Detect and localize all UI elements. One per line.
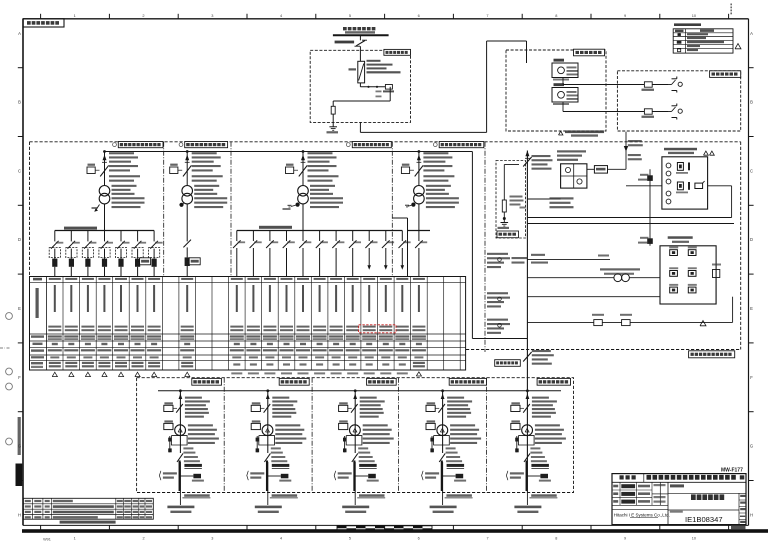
bottom feeder 5 transformer	[515, 424, 566, 452]
bottom panel divider 2	[311, 378, 313, 493]
breaker rating labels	[367, 60, 401, 74]
station transformer DS	[557, 150, 587, 188]
bottom panel divider 4	[486, 378, 488, 493]
emergency power panel dashed enclosure	[617, 71, 740, 131]
feeder S3 disconnect	[286, 150, 339, 186]
bottom panel name box 4	[449, 378, 486, 385]
feeder labels left group2	[487, 292, 510, 307]
labels below DS	[520, 197, 574, 208]
type row label	[670, 484, 684, 487]
relay contact 2	[668, 104, 682, 120]
feeder S1 disconnect	[87, 150, 140, 186]
panel divider S1-S2	[163, 142, 165, 277]
bottom feeder 2 ground transformer	[268, 474, 292, 482]
bottom feeder 4 ground transformer	[443, 474, 467, 482]
drawing title text	[691, 494, 724, 500]
bottom feeder 3 transformer	[343, 424, 394, 452]
bottom feeder 2 cable label	[268, 493, 298, 506]
emergency power equipment panel	[662, 148, 714, 209]
transformer T2	[179, 185, 227, 208]
LV bus S1	[55, 230, 154, 232]
bottom panel name box 1	[192, 378, 222, 385]
svg-text:7: 7	[486, 537, 488, 541]
svg-text:6: 6	[418, 537, 420, 541]
title block frame	[612, 474, 746, 525]
wire feed to bottom panels	[472, 152, 527, 339]
bottom feeder 5 ground transformer	[527, 474, 551, 482]
fuse F1	[383, 85, 394, 93]
svg-text:H: H	[18, 512, 21, 517]
revision footer label	[60, 521, 116, 524]
svg-text:8: 8	[555, 13, 557, 18]
wire	[626, 185, 662, 187]
transformer T3	[283, 185, 344, 210]
LV feeder breaker S3-5	[299, 231, 311, 277]
svg-text:E: E	[750, 306, 753, 311]
LV feeder breaker S3-11	[399, 231, 411, 270]
bottom feeder 5 destination label	[514, 506, 541, 513]
fuse DC circuit 2	[642, 109, 655, 118]
wire	[359, 46, 361, 61]
graphic scale bar	[337, 526, 432, 531]
LV feeder breaker S4-1	[415, 231, 427, 277]
svg-text:MW-F177: MW-F177	[721, 467, 743, 473]
LV bus S4	[408, 230, 431, 232]
LV feeder breaker S1-5	[115, 231, 129, 277]
bottom feeder 2 transformer	[256, 424, 307, 452]
wire	[360, 86, 390, 88]
svg-text:A: A	[18, 31, 21, 36]
bottom feeder 4 cable label	[443, 493, 473, 506]
svg-text:4: 4	[280, 537, 282, 541]
transformer T4	[405, 185, 459, 208]
svg-text:B: B	[18, 100, 21, 105]
LV feeder breaker S1-7	[149, 231, 163, 277]
LV bus S3	[237, 230, 402, 232]
instrument transformer pair	[527, 268, 660, 281]
ground B-5B	[498, 223, 510, 230]
svg-text:F: F	[750, 375, 753, 380]
panel divider S4-HV section	[484, 142, 486, 352]
bottom feeder 4 PU box 2	[426, 420, 435, 429]
LV feeder breaker S2-1	[183, 240, 200, 277]
feeder labels left group1	[487, 253, 510, 268]
HV main vertical wire	[526, 151, 528, 493]
wire	[389, 87, 391, 101]
wire	[359, 83, 361, 87]
spare power source label	[559, 130, 605, 136]
wire AC100V feed	[624, 132, 643, 170]
bottom feeder 4 transformer	[430, 424, 481, 452]
wire	[527, 198, 560, 200]
svg-text:5: 5	[349, 13, 351, 18]
svg-text:D: D	[750, 237, 753, 242]
bottom feeder 1 LBS	[177, 447, 200, 462]
fuse DC circuit 1	[642, 82, 655, 91]
metering panel name box	[384, 49, 411, 55]
bottom feeder 1 destination label	[167, 506, 194, 513]
svg-text:2: 2	[142, 537, 144, 541]
svg-text:C: C	[18, 168, 21, 173]
bus label S3 210-105V	[259, 226, 292, 229]
HV section bottom dashed edge	[466, 349, 741, 351]
location cross cell	[652, 482, 668, 505]
bottom feeder 4 LBS	[439, 447, 462, 462]
control power breaker	[587, 166, 626, 174]
bottom feeder 2 cable run	[247, 461, 268, 493]
labels near EF lower	[512, 257, 528, 264]
table circuit data cells	[48, 278, 426, 368]
bottom feeder 1 bold label	[184, 464, 202, 469]
emergency power panel name box	[710, 71, 741, 78]
svg-text:6: 6	[418, 13, 420, 18]
LV feeder breaker S3-3	[266, 231, 278, 277]
bottom feeder 2 disconnect	[251, 389, 297, 453]
svg-text:A: A	[750, 31, 753, 36]
incoming bus	[333, 34, 389, 36]
bottom panels dashed enclosure	[137, 378, 574, 493]
station service panel dashed enclosure	[506, 50, 606, 131]
grounding resistor	[502, 165, 523, 223]
bottom feeder 3 PU box 2	[339, 420, 348, 429]
LV feeder breaker S3-4	[283, 231, 295, 277]
emergency power central panel	[660, 236, 716, 304]
auxiliary box right	[712, 264, 721, 305]
bottom feeder 2 destination label	[255, 506, 282, 513]
bus label S1 400-220V	[64, 227, 97, 230]
surge resistor	[331, 101, 335, 127]
wire	[104, 204, 106, 231]
bottom feeder 3 disconnect	[339, 389, 385, 453]
HV primary panel name box	[689, 351, 735, 358]
wire	[333, 100, 390, 102]
battery charger unit 2	[552, 83, 578, 105]
svg-text:5: 5	[349, 537, 351, 541]
bottom feeder 1 transformer	[168, 424, 219, 452]
bottom feeder 3 cable label	[355, 493, 385, 506]
panel S1 name box 400V transformer panel	[113, 142, 163, 148]
bottom feeder 5 bold label	[531, 464, 549, 469]
grounding transformer dashed cubicle	[496, 161, 526, 239]
table below triangles	[52, 372, 421, 377]
svg-text:3: 3	[211, 13, 213, 18]
bottom panel divider 1	[223, 378, 225, 493]
panel row dashed enclosure	[30, 142, 741, 277]
relay contact 1	[668, 77, 682, 93]
HV section right dashed edge	[740, 142, 742, 350]
panel divider S2-S3	[230, 142, 232, 277]
svg-text:9: 9	[624, 13, 626, 18]
bottom panel name box 2	[279, 378, 309, 385]
wire	[418, 204, 420, 231]
LV feeder breaker S3-2	[250, 231, 262, 277]
node incoming utility source label	[343, 27, 375, 34]
bottom feeder 2 bold label	[272, 464, 290, 469]
transformer panel 2P name box	[495, 360, 521, 367]
revision rows in title block	[612, 482, 652, 505]
LV feeder breaker S3-1	[233, 231, 245, 277]
LV feeder breaker S1-3	[82, 231, 96, 277]
HV disconnect arrow	[525, 151, 530, 159]
bottom feeder 5 cable run	[506, 461, 526, 492]
bottom panel name box 5	[537, 378, 570, 385]
wire	[359, 122, 361, 132]
svg-text:W91: W91	[43, 538, 51, 542]
service point disconnect switch	[355, 40, 368, 46]
wire	[302, 204, 304, 231]
bottom feeder 1 ground transformer	[180, 474, 204, 482]
title block header row	[620, 474, 745, 483]
node junction	[367, 86, 369, 88]
bottom feeder 3 ground transformer	[355, 474, 379, 482]
registration dotted mark top right	[730, 4, 732, 15]
phase label	[376, 91, 382, 98]
bottom feeder 1 cable label	[180, 493, 210, 506]
svg-text:E: E	[18, 306, 21, 311]
service point label	[335, 41, 355, 44]
svg-text:8: 8	[555, 537, 557, 541]
wire	[708, 186, 732, 218]
feeder labels left group3	[487, 319, 510, 334]
svg-text:C: C	[750, 168, 753, 173]
bottom feeder 5 cable label	[527, 493, 557, 506]
svg-text:Hitachi I E Systems Co.,Ltd.: Hitachi I E Systems Co.,Ltd.	[614, 513, 670, 518]
bottom feeder 3 LBS	[352, 447, 375, 462]
battery charger unit 1	[552, 59, 578, 81]
wire feed to station service	[360, 41, 552, 132]
control wire mid	[527, 296, 660, 298]
LV feeder breaker S3-9	[365, 231, 377, 270]
control wire upper mid	[527, 254, 610, 264]
sheet number below border	[731, 526, 746, 529]
load schedule table grid	[30, 277, 466, 371]
medium voltage distribution wire	[105, 151, 473, 153]
top-left drawing number box	[23, 19, 64, 27]
svg-text:H: H	[750, 512, 753, 517]
fuse EF-1 lower	[638, 237, 653, 244]
wire	[563, 102, 668, 112]
bottom feeder 4 bold label	[447, 464, 465, 469]
bottom feeder 3 bold label	[359, 464, 377, 469]
bottom feeder 1 disconnect	[164, 389, 210, 453]
svg-text:9: 9	[624, 537, 626, 541]
bottom feeder 4 destination label	[430, 506, 457, 513]
panel S3 name box high-efficiency transformer panel	[346, 142, 391, 148]
wire	[393, 218, 408, 277]
wire	[563, 78, 668, 85]
LV feeder breaker S3-8	[349, 231, 361, 277]
binder punch holes	[0, 313, 12, 445]
panel S4 name box 210V transformer panel	[433, 142, 483, 148]
bottom feeder 4 disconnect	[426, 389, 472, 453]
bottom panel divider 3	[398, 378, 400, 493]
LV feeder breaker S3-10	[382, 231, 394, 270]
LV feeder breaker S3-6	[316, 231, 328, 277]
LV feeder breaker S1-4	[99, 231, 113, 277]
svg-text:F: F	[18, 375, 21, 380]
main breaker CB1	[349, 61, 365, 83]
bottom feeder 3 cable run	[334, 461, 355, 493]
bottom feeder 3 destination label	[342, 506, 369, 513]
wire	[186, 204, 188, 242]
station service panel name box	[574, 49, 605, 56]
bottom feeder 1 cable run	[159, 461, 180, 493]
bottom panels top bus	[158, 390, 561, 392]
svg-text:10: 10	[692, 537, 696, 541]
metering panel dashed enclosure	[310, 50, 410, 122]
left margin black bar	[16, 464, 23, 487]
bottom feeder 5 disconnect	[511, 389, 557, 417]
panel divider S3-S4	[391, 142, 393, 277]
legend table cable list	[673, 23, 741, 53]
bottom feeder 5 LBS	[524, 447, 547, 462]
transformer T1	[92, 185, 145, 212]
svg-text:7: 7	[486, 13, 488, 18]
bottom panel name box 3	[367, 378, 397, 385]
long control wire upper	[527, 217, 731, 219]
svg-text:1: 1	[74, 537, 76, 541]
LV feeder breaker S1-6	[132, 231, 151, 277]
left margin vertical label	[18, 417, 51, 542]
bottom feeder 5 PU box 2	[511, 420, 520, 429]
control wire low with fuses	[527, 297, 732, 326]
bottom feeder 2 PU box 2	[251, 420, 260, 429]
svg-text:D: D	[18, 237, 21, 242]
svg-text:1: 1	[74, 13, 76, 18]
grounding cubicle name box	[497, 231, 519, 238]
LV feeder breaker S3-7	[332, 231, 344, 277]
red revision cloud highlight	[359, 325, 396, 333]
revision history table	[23, 498, 153, 519]
svg-text:IE1B08347: IE1B08347	[685, 515, 723, 524]
long control wire lower	[527, 223, 734, 225]
fuse EF-1 upper	[638, 169, 653, 246]
svg-text:3: 3	[211, 537, 213, 541]
bottom feeder 1 PU box 2	[164, 420, 173, 429]
table row header column	[31, 278, 44, 368]
panel S2 name box 400V transformer panel	[179, 142, 228, 148]
svg-text:B: B	[750, 100, 753, 105]
LBS switch upper	[523, 155, 552, 170]
svg-text:G: G	[750, 444, 753, 449]
LV feeder breaker S1-2	[66, 231, 80, 277]
scale cells right strip	[739, 495, 746, 523]
bottom feeder 4 cable run	[422, 461, 443, 493]
feeder S4 disconnect	[401, 150, 454, 186]
feeder S2 disconnect	[170, 150, 223, 186]
LV feeder breaker S1-1	[49, 231, 63, 277]
LBS switch lower	[523, 350, 554, 365]
ground B-1A	[327, 127, 339, 134]
svg-text:2: 2	[142, 13, 144, 18]
wire	[359, 35, 361, 40]
bottom feeder 2 LBS	[264, 447, 287, 462]
